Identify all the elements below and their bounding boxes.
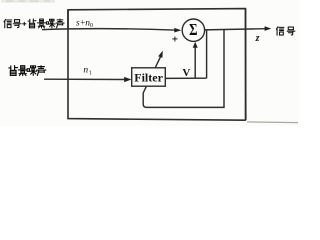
svg-text:n: n (83, 66, 88, 76)
svg-text:Filter: Filter (134, 70, 163, 84)
svg-text:0: 0 (90, 23, 93, 29)
svg-text:1: 1 (89, 71, 92, 77)
svg-text:V: V (182, 67, 190, 79)
svg-text:Σ: Σ (189, 22, 197, 40)
svg-text:z: z (255, 33, 260, 44)
